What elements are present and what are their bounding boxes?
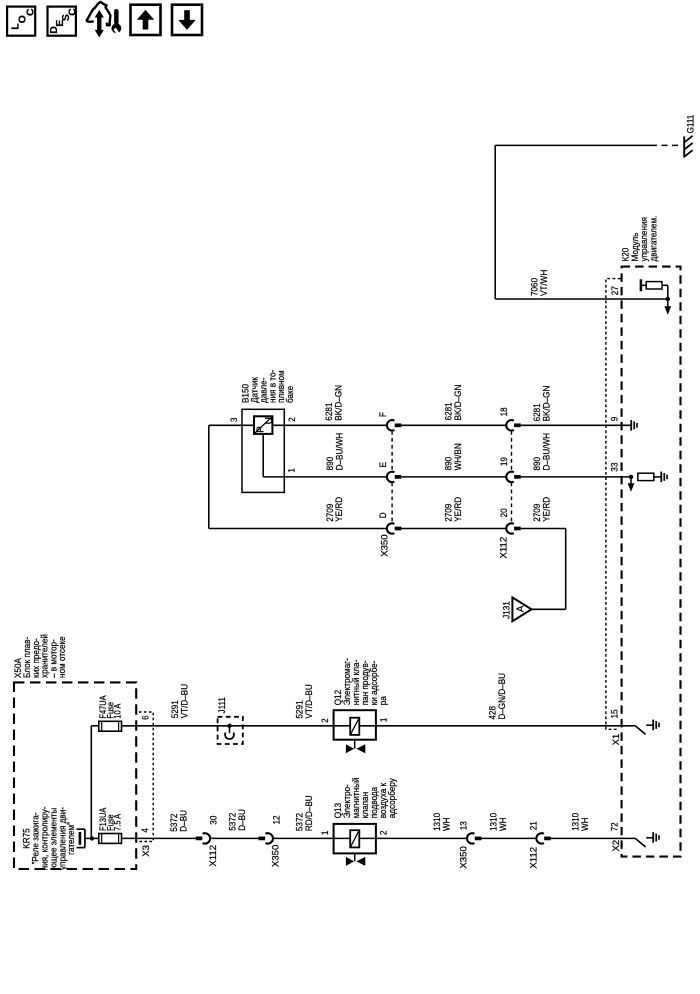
svg-text:YE/RD: YE/RD — [452, 497, 463, 522]
svg-text:C: C — [66, 8, 78, 16]
svg-text:D–BU: D–BU — [236, 809, 247, 831]
svg-text:U: U — [264, 417, 275, 424]
svg-text:гателем”: гателем” — [66, 822, 77, 855]
svg-text:BK/D–GN: BK/D–GN — [541, 386, 552, 422]
svg-text:WH: WH — [497, 817, 508, 831]
svg-text:J111: J111 — [216, 697, 227, 713]
svg-text:30: 30 — [208, 816, 219, 825]
svg-text:D: D — [377, 512, 388, 518]
svg-text:BK/D–GN: BK/D–GN — [452, 385, 463, 421]
svg-text:P: P — [256, 426, 267, 433]
svg-text:YE/RD: YE/RD — [541, 497, 552, 522]
svg-text:2: 2 — [319, 718, 330, 723]
svg-text:2: 2 — [378, 831, 389, 836]
svg-text:33: 33 — [609, 463, 620, 472]
svg-text:E: E — [377, 462, 388, 467]
svg-text:4: 4 — [139, 828, 150, 833]
svg-text:YE/RD: YE/RD — [334, 497, 345, 522]
svg-text:X112: X112 — [528, 847, 539, 869]
svg-text:X350: X350 — [270, 845, 281, 867]
svg-text:15: 15 — [609, 709, 620, 718]
svg-text:20: 20 — [498, 508, 509, 517]
svg-text:X2: X2 — [611, 840, 622, 852]
svg-text:9: 9 — [609, 417, 620, 422]
svg-text:1: 1 — [286, 468, 297, 473]
svg-text:6: 6 — [140, 715, 151, 720]
svg-text:WH: WH — [441, 817, 452, 831]
svg-text:7.5 A: 7.5 A — [113, 813, 123, 831]
svg-text:X350: X350 — [380, 534, 391, 556]
svg-text:12: 12 — [271, 815, 282, 824]
svg-text:VT/D–BU: VT/D–BU — [303, 684, 314, 718]
svg-text:X1: X1 — [611, 734, 622, 746]
svg-text:ном отсеке: ном отсеке — [57, 636, 68, 678]
svg-text:ра: ра — [377, 696, 388, 705]
svg-text:21: 21 — [528, 821, 539, 830]
svg-text:19: 19 — [498, 457, 509, 466]
svg-text:X112: X112 — [208, 845, 219, 867]
svg-text:10 A: 10 A — [113, 703, 123, 718]
svg-text:адсорберу: адсорберу — [386, 778, 397, 819]
svg-text:1: 1 — [319, 831, 330, 836]
svg-text:BK/D–GN: BK/D–GN — [333, 385, 344, 421]
svg-text:18: 18 — [498, 407, 509, 416]
svg-text:двигателем.: двигателем. — [648, 216, 659, 262]
svg-text:C: C — [24, 8, 36, 16]
svg-text:13: 13 — [458, 821, 469, 830]
svg-text:D–GN/D–BU: D–GN/D–BU — [496, 673, 507, 720]
svg-text:баке: баке — [284, 386, 295, 403]
svg-text:A: A — [515, 605, 526, 612]
svg-text:F: F — [377, 412, 388, 417]
svg-text:VT/WH: VT/WH — [538, 270, 549, 296]
svg-text:D–BU/WH: D–BU/WH — [541, 433, 552, 471]
svg-text:3: 3 — [228, 417, 239, 422]
svg-text:2: 2 — [286, 417, 297, 422]
svg-text:VT/D–BU: VT/D–BU — [179, 684, 190, 718]
svg-text:WH/BN: WH/BN — [452, 443, 463, 470]
svg-text:WH: WH — [579, 817, 590, 831]
svg-text:27: 27 — [609, 286, 620, 295]
svg-text:X3: X3 — [141, 845, 152, 857]
svg-text:G111: G111 — [685, 115, 696, 134]
svg-text:1: 1 — [378, 718, 389, 723]
svg-text:D–BU: D–BU — [178, 810, 189, 832]
svg-text:RD/D–BU: RD/D–BU — [303, 795, 314, 831]
svg-text:J131: J131 — [501, 601, 512, 619]
svg-text:X350: X350 — [459, 846, 470, 868]
svg-text:X112: X112 — [499, 537, 510, 559]
svg-text:72: 72 — [609, 822, 620, 831]
svg-text:D–BU/WH: D–BU/WH — [334, 433, 345, 471]
